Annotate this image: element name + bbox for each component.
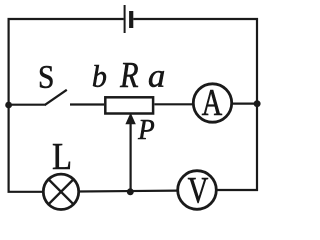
wire rheostat to ammeter	[155, 103, 194, 105]
resistor R (rheostat body)	[105, 97, 153, 113]
wire right vertical	[256, 18, 258, 191]
label P	[138, 120, 154, 139]
wire bottom left (corner to lamp)	[8, 191, 44, 193]
wire top right (battery to corner)	[133, 18, 258, 20]
wire top left (to battery)	[8, 18, 124, 20]
wire ammeter to right junction	[232, 102, 257, 104]
label R	[120, 63, 138, 87]
voltmeter U2 circle	[178, 171, 217, 210]
lamp cross	[49, 179, 74, 204]
label a	[149, 71, 164, 87]
node junction bottom (dot)	[127, 188, 134, 195]
slider P arrow	[125, 113, 135, 192]
switch S	[45, 90, 67, 105]
label S	[40, 66, 53, 88]
ammeter U1 circle	[193, 84, 231, 122]
label L	[53, 144, 70, 169]
wire switch to rheostat	[70, 103, 104, 105]
node junction left (dot)	[5, 102, 12, 109]
label A (ammeter)	[202, 90, 222, 115]
label b	[93, 65, 106, 87]
label V (voltmeter)	[188, 178, 208, 203]
wire lamp to voltmeter	[79, 190, 178, 193]
wire voltmeter to right corner	[217, 189, 259, 191]
wire left vertical	[8, 18, 10, 193]
node junction right (dot)	[254, 100, 261, 107]
wire middle left (junction to switch)	[9, 104, 45, 106]
lamp L circle	[43, 174, 78, 209]
battery	[125, 5, 132, 33]
